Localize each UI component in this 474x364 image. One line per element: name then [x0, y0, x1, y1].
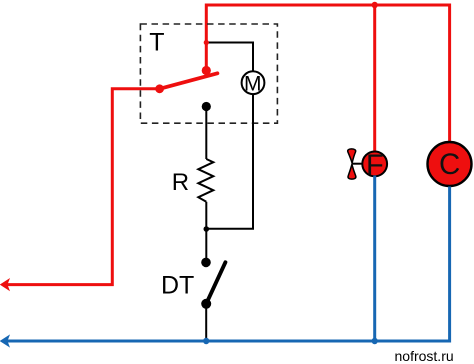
switch T pivot (red dot): [155, 84, 164, 93]
wire: black from resistor down to junction: [205, 202, 207, 229]
wire: blue from fan F down to bus: [373, 176, 376, 342]
svg-text:nofrost.ru: nofrost.ru: [395, 348, 454, 364]
arrowhead: blue left arrow: [1, 336, 9, 346]
wire: red drop from rail to compressor C: [448, 4, 451, 142]
timer motor M: [242, 71, 265, 94]
wire: red from switch pivot to left and down to arrow: [6, 89, 160, 285]
svg-text:M: M: [244, 72, 262, 95]
arrowhead: red left arrow: [1, 280, 9, 290]
node: red junction where motor branch taps off: [204, 40, 209, 45]
svg-text:R: R: [172, 169, 189, 196]
fan motor F: [362, 152, 387, 177]
wire: red drop from rail to fan F: [373, 5, 376, 153]
wire: red drop from rail to thermostat T: [205, 4, 208, 71]
node: red junction on top rail: [372, 2, 378, 8]
wire: black from motor M down and left to junction: [207, 95, 253, 229]
wire: black from DT down to blue bus: [205, 304, 207, 341]
switch T upper contact (red dot): [202, 66, 211, 75]
wire: black from junction to defrost thermostat DT: [205, 229, 207, 262]
wire: black from lower contact down to resistor: [205, 107, 207, 160]
thermostat box T (dashed): [140, 24, 277, 123]
fan symbol (propeller): [348, 149, 363, 179]
wire: black branch to timer motor M: [206, 43, 253, 72]
node: blue junction F/bus: [372, 338, 378, 344]
switch DT blade (open): [206, 262, 225, 304]
switch DT lower contact: [201, 299, 211, 309]
switch T blade (closed to upper contact): [160, 73, 218, 89]
svg-text:DT: DT: [161, 272, 194, 300]
svg-text:C: C: [439, 148, 460, 181]
svg-text:T: T: [149, 29, 164, 57]
wire: blue from compressor C down to bus: [448, 187, 451, 343]
wire: red top supply rail: [206, 4, 449, 7]
node: blue junction DT/bus: [203, 338, 209, 344]
node: black junction below resistor: [204, 226, 210, 232]
wire: blue bottom return bus: [6, 340, 450, 343]
switch T lower contact (black dot): [202, 102, 211, 111]
compressor C: [428, 142, 472, 186]
switch DT upper contact: [201, 258, 211, 268]
resistor R (zigzag): [198, 159, 213, 202]
